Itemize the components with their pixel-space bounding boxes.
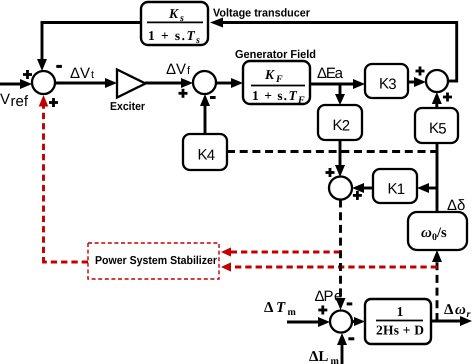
svg-text:3: 3 xyxy=(388,76,396,93)
wire red dashed PSS input lower from Delta omega r line xyxy=(221,262,437,271)
node DeltaEa label xyxy=(317,65,344,82)
svg-text:m: m xyxy=(331,356,340,364)
summing junction S3 xyxy=(426,70,448,92)
wire DeltaLm input up into S5 xyxy=(337,333,347,364)
svg-text:r: r xyxy=(467,309,471,320)
wire K4 output up into S2 xyxy=(200,94,210,134)
wire dashed K4 input from delta line xyxy=(227,150,437,153)
svg-text:Power System Stabilizer: Power System Stabilizer xyxy=(95,255,217,267)
wire delta line from omega0/s up to K5 with arrow into K1 xyxy=(417,143,437,212)
wire red dashed PSS input upper from DeltaPe line xyxy=(221,247,340,256)
wire S5 to swing block xyxy=(352,317,365,326)
sign plus at S3 top left xyxy=(416,67,425,76)
wire K5 output up into S3 xyxy=(432,92,442,108)
svg-text:Δ: Δ xyxy=(444,302,454,318)
svg-text:T: T xyxy=(187,28,196,43)
wire S1 to Exciter xyxy=(55,78,117,88)
summing junction S5 xyxy=(330,311,352,333)
sign plus at S3 bottom right xyxy=(443,93,452,102)
block K4 xyxy=(183,134,227,170)
svg-text:ref: ref xyxy=(11,93,29,110)
sign minus at S2 bottom right xyxy=(210,96,216,99)
svg-text:ΔP: ΔP xyxy=(315,288,334,305)
svg-text:F: F xyxy=(275,74,283,85)
node Vref label xyxy=(0,91,29,110)
node DeltaVt label xyxy=(70,65,94,82)
svg-text:5: 5 xyxy=(438,120,446,137)
summing junction S4 xyxy=(329,177,352,200)
block K1 xyxy=(373,169,417,203)
block omega0/s xyxy=(408,212,467,250)
summing junction S1 xyxy=(32,71,55,94)
wire K3 to S3 xyxy=(408,77,426,87)
wire output Delta omega r xyxy=(431,316,472,326)
svg-text:1 + s.: 1 + s. xyxy=(148,28,185,43)
node DeltaVf label xyxy=(166,61,191,78)
block Generator Field KF/(1+s.TF) xyxy=(243,61,310,106)
wire S2 to Generator Field block xyxy=(216,78,243,88)
node DeltaLm label xyxy=(309,349,340,364)
svg-text:ΔEa: ΔEa xyxy=(317,65,344,82)
svg-text:t: t xyxy=(91,69,94,81)
sign plus at S2 bottom left xyxy=(179,89,188,98)
wire Exciter to S2 xyxy=(145,78,193,88)
sign minus at S5 top right xyxy=(347,302,353,305)
wire DeltaTm input into S5 xyxy=(287,317,330,327)
svg-text:e: e xyxy=(334,288,342,305)
svg-text:2: 2 xyxy=(342,118,350,135)
svg-text:ΔL: ΔL xyxy=(309,349,328,364)
wire transducer output to S1 top xyxy=(37,21,141,71)
wire K1 output into S4 xyxy=(352,183,373,193)
svg-text:s: s xyxy=(195,35,200,46)
svg-text:1: 1 xyxy=(397,181,405,198)
svg-text:ΔV: ΔV xyxy=(70,65,90,82)
block Power System Stabilizer xyxy=(88,243,219,279)
svg-text:1 + s.: 1 + s. xyxy=(252,88,287,103)
svg-text:T: T xyxy=(289,88,298,103)
wire Vref input arrow into S1 xyxy=(0,79,32,89)
svg-text:Δ: Δ xyxy=(264,300,274,316)
sign minus at S1 top right xyxy=(56,65,62,68)
svg-text:4: 4 xyxy=(207,147,215,164)
svg-text:K: K xyxy=(264,67,275,82)
svg-text:2Hs + D: 2Hs + D xyxy=(376,323,424,338)
summing junction S2 xyxy=(193,71,216,94)
svg-text:K: K xyxy=(168,6,179,21)
sign minus at S5 bottom right xyxy=(348,337,354,340)
wire K2 output down into S4 xyxy=(335,140,345,177)
svg-text:V: V xyxy=(0,91,10,108)
sign plus at S1 bottom right xyxy=(49,98,58,107)
node DeltaTm label xyxy=(264,300,297,318)
wire branch DeltaEa down into K2 xyxy=(335,84,345,105)
block Voltage transducer Ks/(1+s.Ts) xyxy=(141,2,208,46)
svg-text:Generator Field: Generator Field xyxy=(235,49,316,61)
wire dashed DeltaPe from S4 down into S5 xyxy=(336,200,346,311)
block K5 xyxy=(415,108,458,143)
wire dashed omega r feedback from output line up into omega0/s xyxy=(432,250,442,321)
sign plus at S1 left xyxy=(23,70,32,79)
node Delta omega r label xyxy=(444,302,471,320)
block 1/(2Hs+D) xyxy=(365,299,431,344)
svg-text:ω: ω xyxy=(421,225,432,241)
wire Generator Field to K3 with junction to K2 xyxy=(310,79,365,89)
wire red dashed PSS output to S1 xyxy=(39,95,88,263)
wire feedback top right: from S3 output up and left into transducer xyxy=(210,18,458,83)
svg-text:F: F xyxy=(297,95,305,106)
svg-text:ΔV: ΔV xyxy=(166,61,186,78)
svg-text:/s: /s xyxy=(436,225,447,241)
block K2 xyxy=(318,105,362,140)
svg-text:T: T xyxy=(276,300,286,316)
svg-text:m: m xyxy=(288,307,297,318)
svg-text:1: 1 xyxy=(397,304,404,319)
block K3 xyxy=(365,64,408,98)
sign plus at S5 left xyxy=(318,306,327,315)
sign plus at S4 bottom right xyxy=(353,191,362,200)
amplifier Exciter triangle xyxy=(117,70,146,98)
svg-text:Voltage transducer: Voltage transducer xyxy=(213,8,310,20)
svg-text:ω: ω xyxy=(455,302,466,318)
svg-text:Exciter: Exciter xyxy=(110,101,145,113)
sign plus at S4 top left xyxy=(326,168,335,177)
node DeltaPe label xyxy=(315,288,343,305)
